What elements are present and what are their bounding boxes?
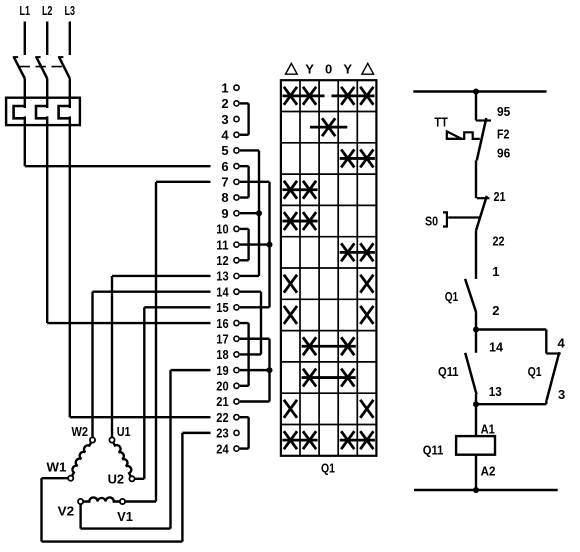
wire terminal 23 to W1	[42, 433, 211, 542]
wire terminal 10 to 12	[240, 229, 249, 260]
wire terminal 19 to V2	[81, 370, 211, 528]
contact marks row 7-8	[282, 181, 317, 199]
svg-text:S0: S0	[425, 213, 438, 228]
motor winding U1-U2	[113, 442, 131, 476]
contactor coil Q11	[456, 436, 495, 455]
pin 96	[497, 146, 510, 161]
switch pole L2 blade	[35, 57, 47, 108]
terminal 23	[216, 426, 239, 441]
contact marks row 9-10	[282, 212, 317, 230]
contact Q1 (3-4)	[546, 352, 560, 400]
motor terminal V2	[78, 499, 83, 504]
terminal 14	[216, 284, 239, 299]
svg-text:Y: Y	[305, 62, 314, 77]
wire terminal 13 to U1	[112, 276, 211, 437]
switch position symbol: delta (left)	[286, 63, 298, 74]
wire top rail to F2 contact	[475, 92, 477, 121]
wire Q11 contact to junction 13	[475, 394, 477, 404]
svg-text:V2: V2	[58, 503, 75, 518]
switch position symbol: delta (right)	[362, 63, 374, 74]
pin 21	[494, 189, 506, 204]
wire L1 to terminal 6	[25, 116, 211, 166]
wire L2 to terminal 16	[47, 116, 210, 323]
terminal 19	[216, 363, 239, 378]
svg-text:4: 4	[558, 335, 566, 350]
svg-text:Q1: Q1	[445, 289, 459, 304]
svg-text:6: 6	[221, 159, 228, 174]
contact marks row 1-2	[283, 87, 375, 105]
svg-text:20: 20	[216, 379, 228, 394]
svg-text:9: 9	[221, 206, 228, 221]
junction bottom rail	[473, 487, 479, 493]
pin A2	[481, 463, 496, 478]
switch pole L1 blade	[13, 57, 25, 108]
svg-text:8: 8	[221, 190, 228, 205]
wire terminal 7 to V1	[125, 182, 210, 502]
terminal 22	[216, 410, 239, 425]
contact marks row 15-16	[284, 306, 374, 324]
terminal 2	[221, 96, 239, 111]
wire terminal 14 to 18	[240, 292, 261, 355]
contact Q11 (13-14)	[465, 353, 476, 395]
thermal trip symbol TT	[447, 131, 480, 139]
label W2	[72, 424, 89, 439]
label Q11 coil	[423, 443, 444, 458]
wire terminal 17-19-21	[240, 339, 270, 402]
contact marks row 3-4	[310, 118, 347, 136]
terminal 12	[216, 253, 239, 268]
pin 1	[492, 264, 499, 279]
junction node at pin 13 level	[473, 401, 479, 407]
svg-text:V1: V1	[117, 509, 133, 524]
overload heater element phase 2	[36, 106, 48, 118]
motor terminal V1	[120, 499, 125, 504]
svg-text:95: 95	[497, 104, 510, 119]
pin 13	[489, 384, 502, 399]
svg-text:3: 3	[221, 112, 228, 127]
terminal 17	[216, 331, 239, 346]
switch pole L3 blade	[58, 57, 70, 108]
label S0	[425, 213, 438, 228]
label F2	[497, 126, 509, 141]
wire coil to bottom rail	[475, 455, 477, 490]
wire terminal 6 to 8	[240, 166, 249, 197]
overload relay F2 box	[6, 98, 80, 125]
terminal 21	[216, 394, 239, 409]
node L2 label	[42, 3, 53, 18]
svg-text:U2: U2	[108, 472, 125, 487]
svg-text:14: 14	[216, 284, 229, 299]
svg-text:16: 16	[216, 316, 228, 331]
wire terminal 15 to U2	[135, 307, 211, 478]
contact marks row 23-24	[282, 431, 375, 449]
overload heater element phase 3	[59, 106, 71, 118]
svg-text:11: 11	[216, 237, 228, 252]
svg-text:W2: W2	[72, 424, 89, 439]
wire terminal 16 to 20	[240, 323, 249, 386]
wire terminal 7-11-15	[240, 182, 270, 308]
svg-text:2: 2	[221, 96, 228, 111]
junction terminal 11	[267, 242, 273, 248]
svg-text:5: 5	[221, 143, 228, 158]
svg-text:0: 0	[325, 62, 332, 77]
wire L3 to terminal 22	[70, 116, 211, 417]
svg-text:L3: L3	[65, 3, 76, 18]
contact marks row 5-6	[340, 149, 375, 167]
contact Q1 (1-2)	[465, 279, 476, 312]
pin 4	[558, 335, 566, 350]
control circuit top rail	[413, 90, 546, 92]
label U1	[117, 424, 131, 439]
label U2	[108, 472, 125, 487]
svg-text:96: 96	[497, 146, 510, 161]
wire junction to Q11 contact	[475, 330, 477, 353]
terminal 5	[221, 143, 239, 158]
switch position symbol: Y (left)	[305, 62, 314, 77]
motor terminal W2	[90, 437, 95, 442]
label Q1 contact	[445, 289, 459, 304]
terminal 10	[216, 222, 239, 237]
terminal 6	[221, 159, 239, 174]
svg-text:A2: A2	[481, 463, 496, 478]
overload heater element phase 1	[14, 106, 26, 118]
svg-text:10: 10	[216, 222, 228, 237]
switch position symbol: Y (right)	[343, 62, 352, 77]
wire L1 stub	[24, 22, 26, 56]
svg-text:2: 2	[492, 303, 499, 318]
label V2	[58, 503, 75, 518]
wire S0 to Q1 contact	[475, 231, 477, 279]
terminal 4	[221, 127, 239, 142]
wire Q1 to branch junction	[475, 312, 477, 329]
svg-text:24: 24	[216, 441, 229, 456]
svg-text:F2: F2	[497, 126, 509, 141]
svg-text:3: 3	[558, 387, 565, 402]
label TT	[434, 115, 447, 130]
contact table grid	[281, 80, 377, 456]
contact marks row 11-12	[340, 243, 375, 261]
wire L3 stub	[69, 22, 71, 56]
junction terminal 19	[267, 367, 273, 373]
node L1 label	[20, 3, 31, 18]
svg-text:U1: U1	[117, 424, 131, 439]
svg-text:W1: W1	[47, 460, 67, 475]
pin 2	[492, 303, 499, 318]
wire right branch lower	[476, 400, 546, 404]
svg-text:22: 22	[493, 234, 505, 249]
terminal 24	[216, 441, 239, 456]
pin 95	[497, 104, 510, 119]
svg-text:13: 13	[216, 269, 228, 284]
svg-text:14: 14	[489, 340, 504, 355]
label Q11 contact	[438, 364, 459, 379]
label W1	[47, 460, 67, 475]
wire right branch upper	[476, 330, 546, 354]
svg-text:Q11: Q11	[423, 443, 444, 458]
terminal 20	[216, 379, 239, 394]
svg-text:Y: Y	[343, 62, 352, 77]
svg-text:12: 12	[216, 253, 228, 268]
pin 22	[493, 234, 505, 249]
svg-text:TT: TT	[434, 115, 447, 130]
svg-text:7: 7	[221, 175, 228, 190]
svg-text:1: 1	[492, 264, 499, 279]
junction node below pin 2	[473, 327, 479, 333]
pin 3	[558, 387, 565, 402]
svg-text:22: 22	[216, 410, 228, 425]
contact marks row 21-22	[284, 400, 374, 418]
motor terminal U2	[129, 476, 134, 481]
svg-text:21: 21	[216, 394, 228, 409]
thermal contact F2 (95-96)	[476, 118, 491, 160]
motor terminal W1	[68, 476, 73, 481]
wire terminal 22 to 24	[240, 417, 249, 448]
wire terminal 14 to W2	[93, 292, 211, 438]
pin 14	[489, 340, 504, 355]
motor terminal U1	[109, 437, 114, 442]
svg-text:15: 15	[216, 300, 228, 315]
svg-text:Q1: Q1	[528, 364, 542, 379]
svg-text:21: 21	[494, 189, 506, 204]
wire F2 to S0	[475, 160, 477, 198]
junction top rail	[473, 89, 479, 95]
label V1	[117, 509, 133, 524]
node L3 label	[65, 3, 76, 18]
svg-text:L1: L1	[20, 3, 31, 18]
svg-text:23: 23	[216, 426, 228, 441]
terminal 11	[216, 237, 239, 252]
wire L2 stub	[46, 22, 48, 56]
terminal 15	[216, 300, 239, 315]
terminal 3	[221, 112, 239, 127]
svg-text:18: 18	[216, 347, 228, 362]
svg-text:L2: L2	[42, 3, 53, 18]
svg-text:1: 1	[221, 80, 228, 95]
pushbutton S0 (21-22)	[443, 196, 489, 231]
terminal 18	[216, 347, 239, 362]
motor winding V2-V1	[83, 497, 120, 501]
pin A1	[481, 422, 495, 437]
motor winding W2-W1	[72, 442, 91, 476]
terminal 9	[221, 206, 239, 221]
label Q1 right contact	[528, 364, 542, 379]
wire terminal 2 to 4	[240, 103, 249, 134]
contact marks row 17-18	[302, 337, 356, 355]
terminal 8	[221, 190, 239, 205]
control circuit bottom rail	[414, 489, 558, 491]
switch position symbol: 0	[325, 62, 332, 77]
svg-text:Q1: Q1	[321, 461, 335, 476]
switch mechanical link (dashed)	[20, 66, 65, 68]
svg-text:19: 19	[216, 363, 228, 378]
terminal 16	[216, 316, 239, 331]
terminal 13	[216, 269, 239, 284]
svg-text:A1: A1	[481, 422, 495, 437]
label Q1 under table	[321, 461, 335, 476]
terminal 1	[221, 80, 239, 95]
terminal 7	[221, 175, 239, 190]
svg-text:Q11: Q11	[438, 364, 459, 379]
svg-text:4: 4	[221, 127, 229, 142]
contact marks row 13-14	[284, 275, 374, 293]
wire terminal 5-9-13	[240, 150, 259, 276]
wire junction to coil	[475, 404, 477, 436]
contact marks row 19-20	[302, 369, 356, 387]
junction terminal 9	[256, 210, 262, 216]
svg-text:17: 17	[216, 331, 228, 346]
svg-text:13: 13	[489, 384, 502, 399]
